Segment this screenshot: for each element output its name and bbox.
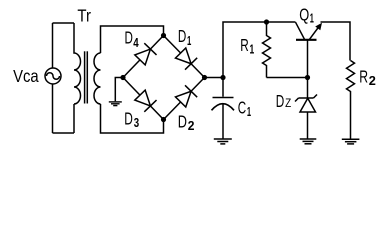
svg-text:D: D	[125, 28, 133, 48]
wire	[205, 77, 224, 79]
label R2	[359, 67, 376, 89]
node C1 junction	[220, 75, 225, 80]
wire	[53, 132, 75, 134]
wire	[123, 78, 164, 120]
svg-text:1: 1	[187, 33, 191, 48]
svg-text:D: D	[124, 109, 133, 129]
svg-text:C: C	[238, 97, 246, 117]
svg-text:1: 1	[250, 42, 255, 57]
wire	[101, 26, 164, 53]
transformer core	[85, 51, 88, 103]
svg-text:2: 2	[369, 73, 376, 88]
capacitor C1	[212, 78, 235, 139]
node top corner	[161, 33, 166, 38]
svg-text:4: 4	[133, 35, 139, 50]
node base junction	[305, 75, 310, 80]
zener diode Dz	[295, 78, 317, 139]
svg-text:D: D	[276, 91, 285, 111]
label D3	[124, 109, 139, 130]
wire	[115, 78, 123, 102]
svg-text:1: 1	[310, 11, 314, 26]
svg-text:Z: Z	[285, 96, 291, 110]
wire	[164, 36, 205, 78]
wire	[123, 36, 164, 78]
node R1 top	[264, 19, 269, 24]
transformer Tr primary winding	[74, 23, 81, 104]
diode D2	[175, 85, 197, 107]
wire	[164, 78, 205, 120]
resistor R2	[347, 61, 355, 139]
svg-text:Tr: Tr	[77, 6, 91, 26]
wire	[52, 23, 54, 68]
resistor R1	[263, 22, 271, 78]
ground	[214, 139, 232, 144]
node left corner	[120, 75, 125, 80]
label C1	[238, 97, 251, 119]
label Q1	[299, 5, 314, 26]
svg-text:1: 1	[247, 104, 251, 119]
svg-text:Q: Q	[299, 5, 309, 25]
node right corner	[202, 75, 207, 80]
transistor Q1	[296, 22, 323, 77]
label D1	[178, 26, 191, 48]
wire	[53, 22, 75, 24]
svg-text:D: D	[178, 26, 186, 46]
diode D4	[135, 43, 157, 65]
ground	[342, 139, 360, 144]
wire	[73, 104, 75, 133]
svg-text:R: R	[240, 35, 249, 55]
ground	[109, 102, 122, 106]
label D2	[178, 111, 195, 133]
svg-text:Vca: Vca	[13, 66, 39, 86]
label D4	[125, 28, 140, 50]
AC source Vca	[45, 68, 61, 84]
svg-text:3: 3	[134, 115, 139, 130]
svg-text:D: D	[178, 111, 187, 131]
diode D1	[175, 48, 197, 70]
label R1	[240, 35, 254, 56]
wire	[223, 22, 296, 78]
svg-text:R: R	[359, 67, 368, 87]
wire	[101, 104, 164, 133]
label Dz	[276, 91, 291, 111]
wire	[52, 84, 54, 133]
diode D3	[135, 90, 157, 112]
svg-text:2: 2	[188, 118, 195, 133]
wire	[321, 22, 351, 61]
ground	[300, 139, 317, 144]
transformer secondary winding	[94, 53, 100, 104]
wire	[267, 77, 308, 79]
node bottom corner	[161, 117, 166, 122]
